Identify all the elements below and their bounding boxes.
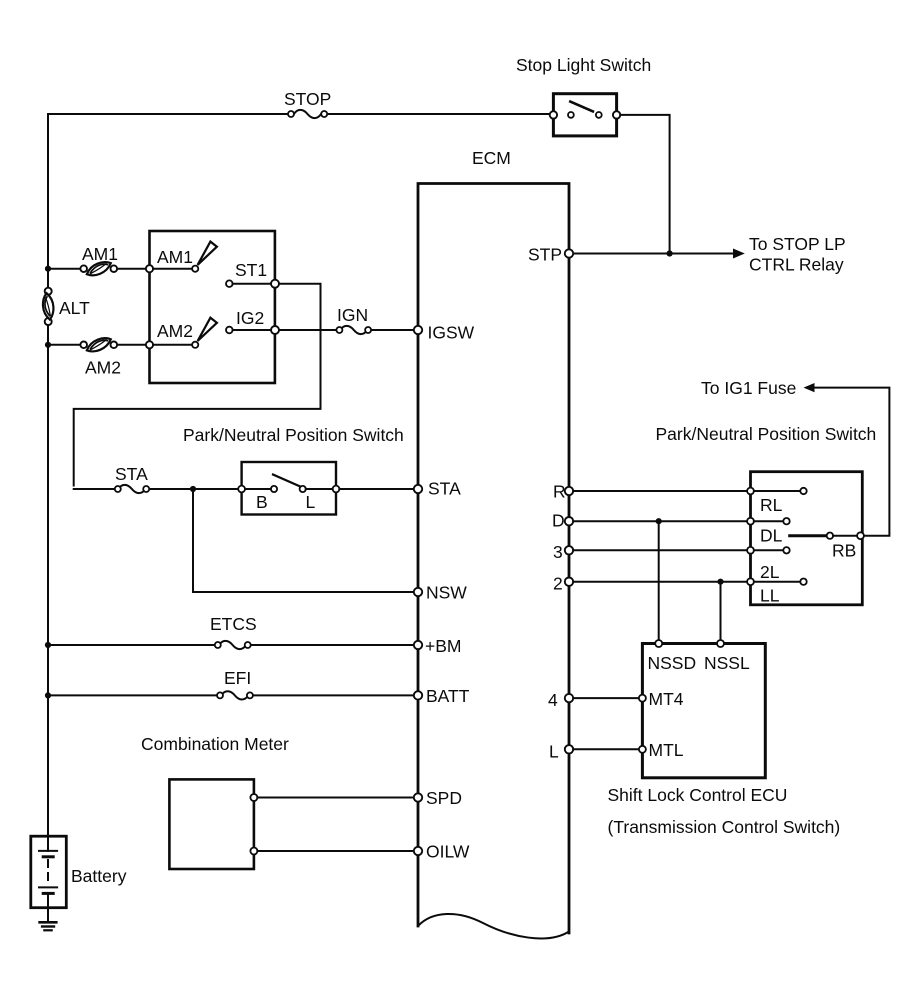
- wire: stop light switch to STP node: [620, 115, 669, 254]
- svg-text:RL: RL: [760, 495, 783, 515]
- node: AM1 tap: [45, 266, 51, 272]
- node: EFI tap: [45, 692, 51, 698]
- node: AM2 tap: [45, 342, 51, 348]
- svg-text:ETCS: ETCS: [210, 614, 257, 634]
- svg-text:To STOP LP: To STOP LP: [749, 234, 846, 254]
- svg-text:ST1: ST1: [235, 260, 267, 280]
- wire: +BM line with ETCS fuse: [48, 644, 215, 646]
- svg-text:OILW: OILW: [426, 842, 470, 862]
- svg-text:R: R: [553, 482, 566, 502]
- contact AM2 with lever: [146, 341, 153, 348]
- svg-text:Stop Light Switch: Stop Light Switch: [516, 55, 651, 75]
- terminal SPD: [414, 793, 422, 801]
- park/neutral position switch box (right): [751, 472, 863, 605]
- ground: [47, 908, 49, 922]
- svg-text:3: 3: [553, 542, 563, 562]
- wire: RB to IG1 fuse loop: [814, 388, 889, 536]
- svg-text:STOP: STOP: [284, 89, 331, 109]
- svg-text:ALT: ALT: [59, 298, 90, 318]
- svg-text:AM2: AM2: [85, 358, 121, 378]
- svg-text:IGSW: IGSW: [428, 323, 475, 343]
- svg-text:Park/Neutral Position Switch: Park/Neutral Position Switch: [183, 425, 404, 445]
- node: NSSD junction: [656, 518, 662, 524]
- svg-text:RB: RB: [832, 541, 856, 561]
- switch contact DL to RB: [790, 534, 827, 537]
- svg-text:CTRL Relay: CTRL Relay: [749, 255, 844, 275]
- svg-text:STP: STP: [528, 245, 562, 265]
- node: NSSL junction: [717, 579, 723, 585]
- terminal 4 and wire MT4: [565, 694, 573, 702]
- svg-text:IGN: IGN: [337, 305, 368, 325]
- wire: STP to STOP LP CTRL relay with arrow: [573, 253, 734, 255]
- svg-text:LL: LL: [760, 586, 780, 606]
- svg-text:ECM: ECM: [472, 148, 511, 168]
- terminal BATT: [414, 691, 422, 699]
- svg-text:Combination Meter: Combination Meter: [141, 734, 289, 754]
- wire: NSW branch: [193, 489, 414, 592]
- svg-text:Shift Lock Control ECU: Shift Lock Control ECU: [608, 785, 788, 805]
- terminal OILW: [414, 847, 422, 855]
- svg-text:4: 4: [548, 690, 558, 710]
- fuse STOP: [294, 110, 321, 118]
- terminal 2 and wire: [565, 578, 573, 586]
- wire: top STOP feed from left bus to stop light switch: [48, 113, 288, 115]
- node: NSW junction: [190, 486, 196, 492]
- svg-text:BATT: BATT: [426, 686, 470, 706]
- ECM box: [418, 184, 569, 934]
- svg-text:NSSL: NSSL: [704, 653, 750, 673]
- wire: OILW: [257, 850, 413, 852]
- svg-text:EFI: EFI: [224, 668, 251, 688]
- ignition switch box: [150, 231, 275, 383]
- svg-text:AM1: AM1: [157, 247, 193, 267]
- terminal 3 and wire: [565, 546, 573, 554]
- wire + fusible link AM2: [48, 344, 81, 346]
- svg-text:B: B: [256, 492, 268, 512]
- park/neutral position switch B-L box: [242, 462, 336, 515]
- contact AM1 with lever: [146, 265, 153, 272]
- svg-text:Park/Neutral Position Switch: Park/Neutral Position Switch: [656, 424, 877, 444]
- terminal STA: [414, 485, 422, 493]
- svg-text:2: 2: [553, 574, 563, 594]
- svg-text:STA: STA: [115, 464, 148, 484]
- svg-text:NSSD: NSSD: [648, 653, 697, 673]
- svg-text:L: L: [549, 742, 559, 762]
- svg-text:Battery: Battery: [71, 866, 127, 886]
- fusible link ALT: [45, 288, 52, 295]
- contact IG2: [226, 327, 233, 334]
- wire: BATT line with EFI fuse: [48, 694, 217, 696]
- wire: NSSL vertical: [720, 582, 722, 640]
- wire + fusible link AM1: [48, 268, 81, 270]
- svg-text:+BM: +BM: [425, 636, 461, 656]
- terminal R and wire: [565, 487, 573, 495]
- node: ETCS tap: [45, 642, 51, 648]
- svg-text:DL: DL: [760, 526, 783, 546]
- svg-text:L: L: [306, 492, 316, 512]
- combination meter box: [169, 779, 254, 869]
- svg-text:D: D: [552, 511, 565, 531]
- svg-text:MT4: MT4: [649, 689, 684, 709]
- wire: NSSD vertical: [658, 521, 660, 640]
- svg-text:MTL: MTL: [649, 740, 684, 760]
- svg-text:IG2: IG2: [236, 308, 264, 328]
- svg-text:(Transmission Control Switch): (Transmission Control Switch): [608, 817, 841, 837]
- terminal STP: [565, 249, 573, 257]
- stop light switch SW1: [553, 94, 616, 136]
- svg-text:To IG1 Fuse: To IG1 Fuse: [701, 378, 796, 398]
- wire: STA line with fuse: [74, 488, 115, 490]
- terminal L and wire MTL: [565, 745, 573, 753]
- node: STP junction: [667, 250, 673, 256]
- svg-text:2L: 2L: [760, 562, 780, 582]
- wire: B-L box to STA terminal: [339, 488, 413, 490]
- terminal +BM: [414, 641, 422, 649]
- terminal D and wire: [565, 517, 573, 525]
- terminal IGSW: [414, 326, 422, 334]
- wire: IG2 to IGSW with IGN fuse: [279, 329, 336, 331]
- svg-text:AM2: AM2: [157, 321, 193, 341]
- svg-text:STA: STA: [428, 479, 461, 499]
- terminal NSW: [414, 588, 422, 596]
- left bus wire: [47, 114, 49, 288]
- wire: ST1 loop to STA fuse: [74, 284, 321, 486]
- wire: SPD: [257, 797, 413, 799]
- svg-text:NSW: NSW: [426, 583, 467, 603]
- battery: [31, 836, 67, 908]
- contact ST1: [226, 280, 233, 287]
- shift lock control ECU box: [642, 644, 765, 778]
- svg-text:AM1: AM1: [82, 244, 118, 264]
- svg-text:SPD: SPD: [426, 788, 462, 808]
